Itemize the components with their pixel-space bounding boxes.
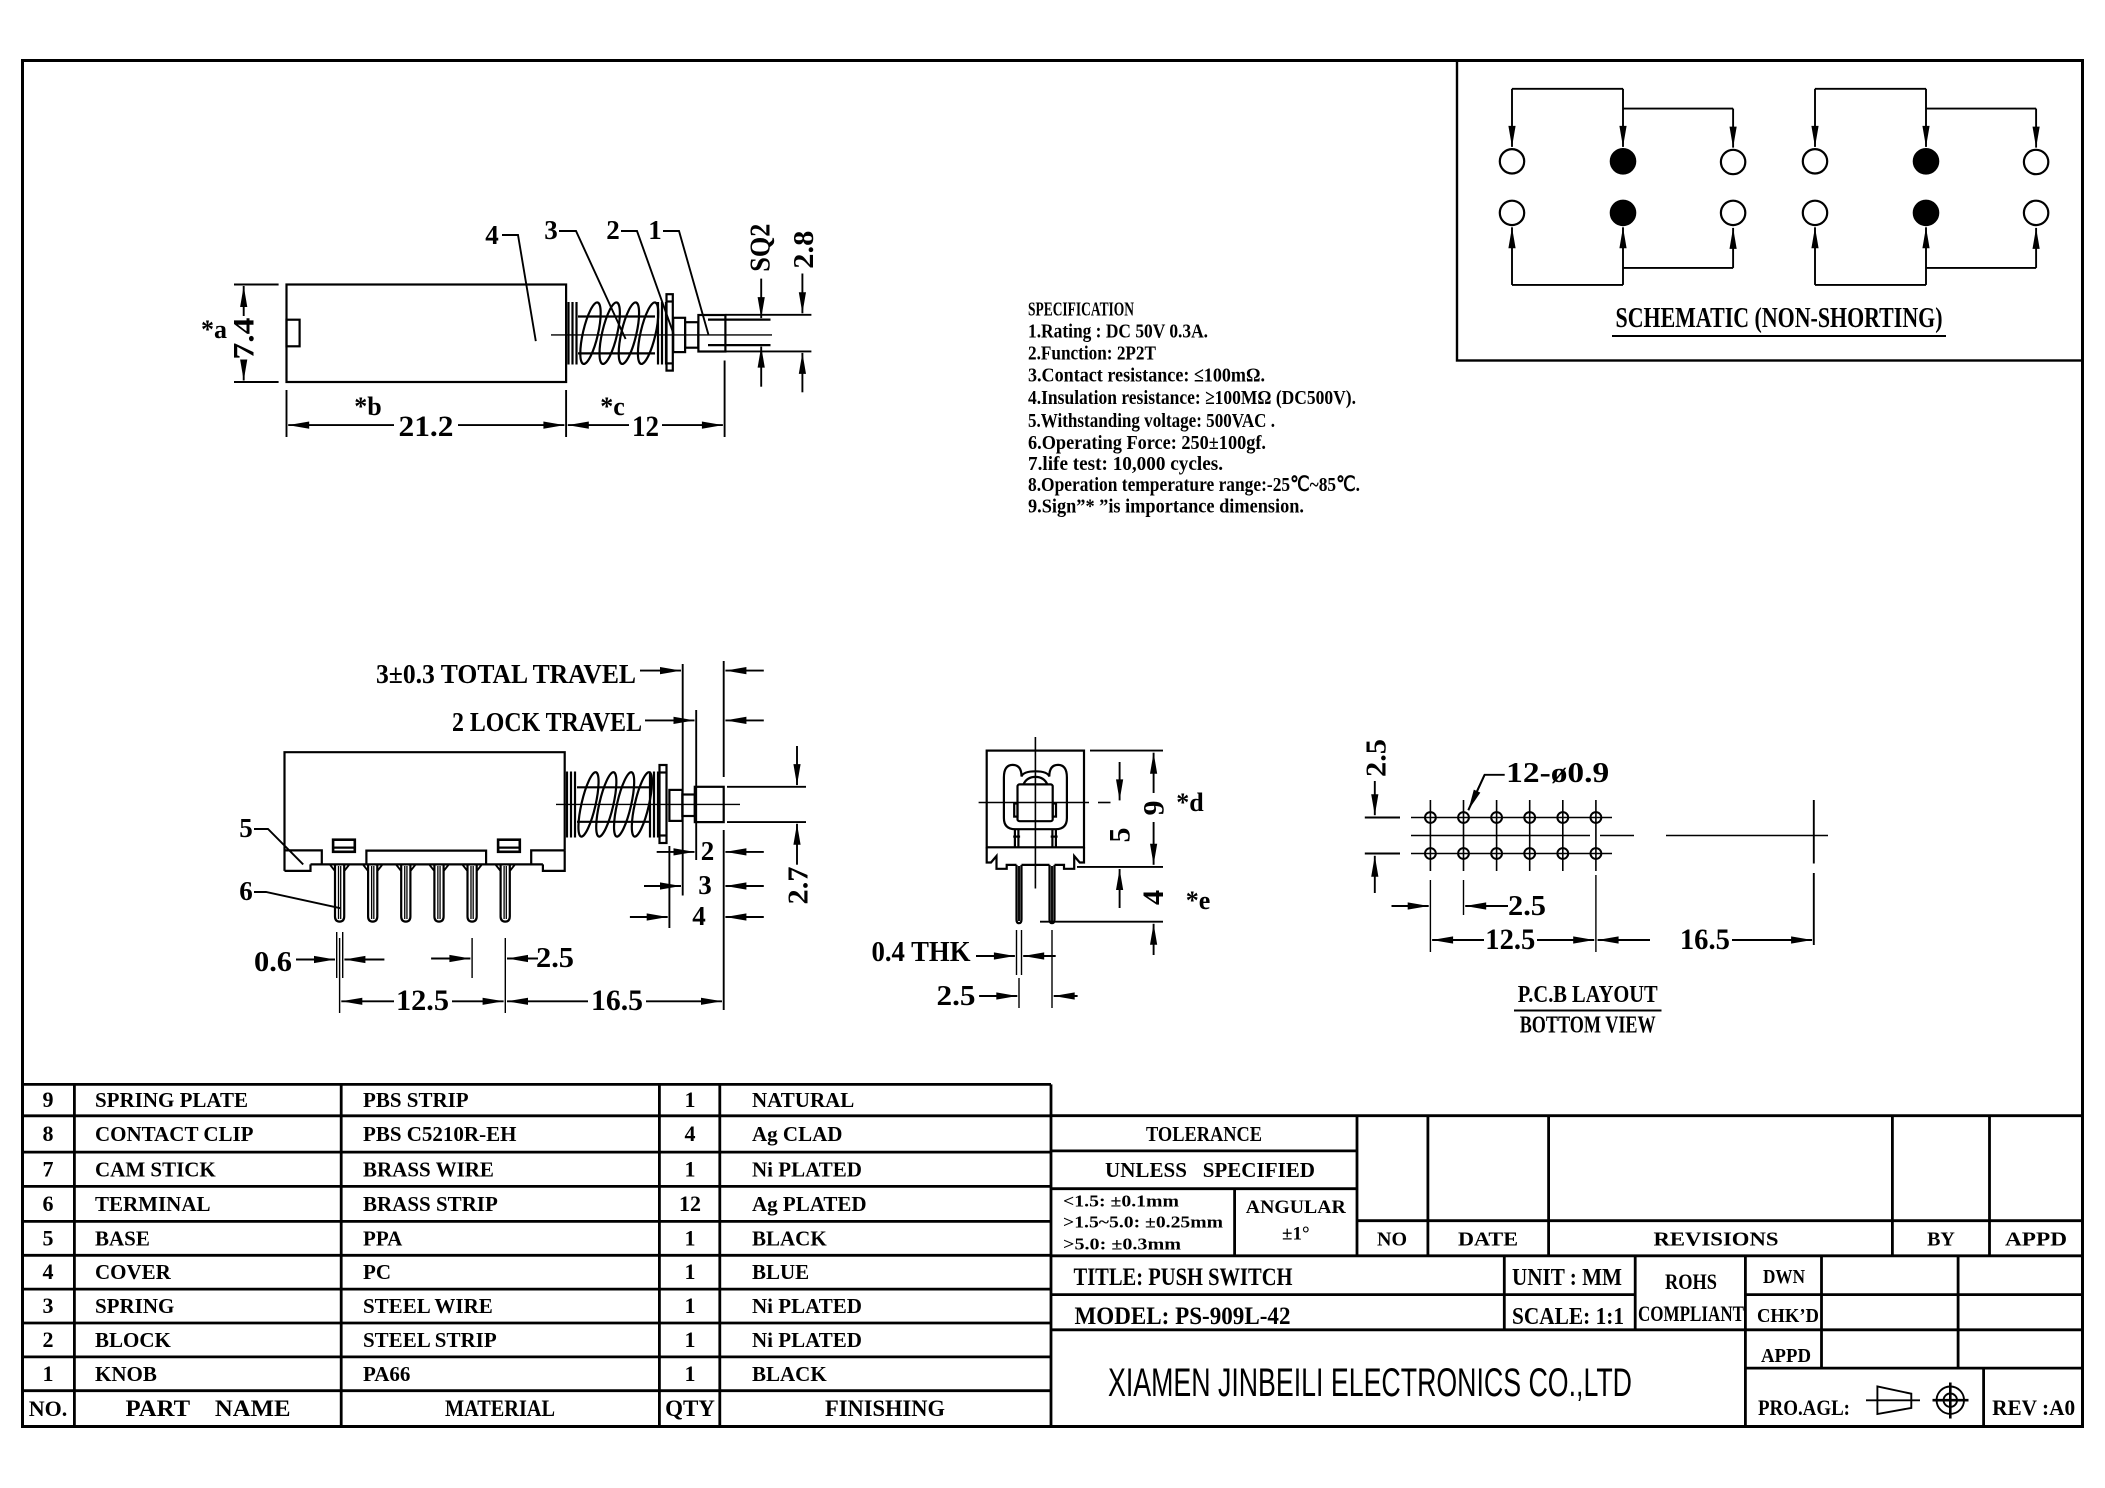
svg-text:STEEL WIRE: STEEL WIRE: [363, 1294, 493, 1318]
spring (view 2): [566, 772, 568, 838]
svg-text:2: 2: [43, 1327, 54, 1352]
plunger rod through spring (view 1): [578, 315, 655, 317]
svg-text:1.Rating : DC 50V 0.3A.: 1.Rating : DC 50V 0.3A.: [1028, 321, 1208, 343]
svg-text:7.life test: 10,000 cycles.: 7.life test: 10,000 cycles.: [1028, 453, 1223, 475]
svg-text:BRASS WIRE: BRASS WIRE: [363, 1157, 494, 1181]
svg-text:ROHS: ROHS: [1665, 1269, 1717, 1294]
projection angle trapezoid symbol: [1877, 1386, 1911, 1414]
svg-text:UNLESS SPECIFIED: UNLESS SPECIFIED: [1105, 1158, 1315, 1182]
svg-text:TITLE: PUSH SWITCH: TITLE: PUSH SWITCH: [1074, 1264, 1293, 1291]
right foot: [543, 850, 565, 871]
horizontal center line: [979, 802, 1089, 804]
svg-text:4: 4: [43, 1259, 54, 1284]
svg-text:PBS C5210R-EH: PBS C5210R-EH: [363, 1122, 516, 1146]
terminals (item 6): 6 pins: [335, 864, 344, 921]
svg-text:2 LOCK TRAVEL: 2 LOCK TRAVEL: [452, 707, 642, 737]
latch window left: [333, 840, 355, 852]
dimension 7.4 (*a): [234, 284, 279, 286]
svg-text:4: 4: [692, 901, 706, 931]
svg-text:P.C.B LAYOUT: P.C.B LAYOUT: [1518, 982, 1658, 1008]
svg-text:FINISHING: FINISHING: [825, 1396, 945, 1421]
svg-text:6: 6: [239, 876, 253, 906]
svg-text:2.5: 2.5: [1361, 739, 1392, 777]
pole 1 wire top middle: [1622, 89, 1624, 147]
pcb center line: [1411, 835, 1590, 837]
svg-text:7: 7: [43, 1156, 54, 1181]
svg-text:1: 1: [685, 1259, 696, 1284]
svg-text:2: 2: [606, 215, 620, 245]
svg-text:MATERIAL: MATERIAL: [445, 1396, 555, 1421]
dim 2.5 (front pins): [1018, 978, 1020, 1008]
shaft (view 2): [682, 795, 694, 817]
svg-text:5: 5: [43, 1225, 54, 1250]
pole 1 wire bottom inner: [1623, 267, 1733, 269]
svg-text:*d: *d: [1176, 788, 1204, 817]
travel dimension lines: [682, 664, 684, 896]
left foot: [285, 864, 311, 871]
pole 2 terminal contacts: [1803, 149, 1827, 173]
svg-text:TERMINAL: TERMINAL: [95, 1192, 211, 1216]
knob edge extension lines: [727, 786, 806, 788]
dim 0.4 THK: [1016, 930, 1018, 975]
guide channels: [1014, 829, 1016, 847]
svg-text:COMPLIANT: COMPLIANT: [1638, 1301, 1744, 1326]
center line (view 1): [551, 334, 772, 336]
svg-text:Ni PLATED: Ni PLATED: [752, 1157, 862, 1181]
dim 12.5: [339, 938, 341, 1013]
base front profile: [987, 847, 1017, 869]
pcb hole grid: [1429, 800, 1431, 871]
SQ2 square section lines: [708, 319, 771, 321]
svg-text:12: 12: [679, 1191, 701, 1216]
ledge right: [531, 850, 565, 864]
svg-text:DATE: DATE: [1458, 1229, 1518, 1251]
center line (view 2): [556, 803, 740, 805]
svg-text:0.4 THK: 0.4 THK: [872, 937, 971, 968]
svg-text:*b: *b: [354, 392, 381, 421]
svg-text:21.2: 21.2: [399, 410, 454, 443]
svg-text:PBS STRIP: PBS STRIP: [363, 1088, 469, 1112]
svg-text:8.Operation temperature range:: 8.Operation temperature range:-25℃~85℃.: [1028, 474, 1360, 496]
svg-text:<1.5: ±0.1mm: <1.5: ±0.1mm: [1063, 1192, 1179, 1211]
svg-text:2.5: 2.5: [536, 943, 574, 974]
svg-text:ANGULAR: ANGULAR: [1246, 1197, 1346, 1218]
svg-text:NO: NO: [1377, 1229, 1407, 1251]
svg-text:2.5: 2.5: [937, 981, 976, 1012]
svg-text:1: 1: [685, 1156, 696, 1181]
left notch on cover: [287, 320, 300, 347]
svg-text:BRASS STRIP: BRASS STRIP: [363, 1192, 498, 1216]
dimension 2.8: [801, 274, 803, 314]
pcb right reference line: [1813, 800, 1815, 864]
svg-text:1: 1: [685, 1361, 696, 1386]
pole 1 wire top outer: [1512, 88, 1623, 90]
dim 2.5 (rows, left): [1365, 817, 1400, 819]
svg-text:2.Function: 2P2T: 2.Function: 2P2T: [1028, 343, 1156, 365]
svg-text:2: 2: [701, 836, 715, 866]
svg-text:QTY: QTY: [665, 1396, 715, 1421]
svg-text:Ni PLATED: Ni PLATED: [752, 1294, 862, 1318]
projection angle target symbol: [1937, 1387, 1964, 1414]
svg-text:>5.0: ±0.3mm: >5.0: ±0.3mm: [1063, 1235, 1181, 1254]
dim 4 (*e): [1153, 924, 1155, 955]
knob (view 1, item 1): [698, 315, 725, 352]
spring plate wings: [1004, 765, 1067, 829]
svg-text:4.Insulation resistance: ≥100M: 4.Insulation resistance: ≥100MΩ (DC500V)…: [1028, 387, 1356, 409]
pole 2 wire top middle: [1925, 89, 1927, 147]
collar (view 1, item 2): [673, 318, 685, 352]
svg-text:Ag PLATED: Ag PLATED: [752, 1192, 867, 1216]
front pins: [1017, 865, 1022, 923]
pcb holes 12-Ø0.9: [1425, 812, 1436, 823]
pole 2 wire top outer: [1815, 88, 1926, 90]
svg-text:2.7: 2.7: [784, 867, 815, 905]
base/cover body (view 2): [285, 752, 565, 871]
svg-text:12: 12: [632, 410, 659, 443]
svg-text:REVISIONS: REVISIONS: [1654, 1229, 1779, 1251]
svg-text:3: 3: [698, 870, 712, 900]
svg-text:UNIT : MM: UNIT : MM: [1512, 1265, 1622, 1291]
dimension 21.2 (*b): [286, 390, 288, 437]
svg-text:COVER: COVER: [95, 1260, 172, 1284]
svg-text:BLUE: BLUE: [752, 1260, 809, 1284]
dimension 12 (*c): [724, 361, 726, 438]
svg-text:9: 9: [43, 1087, 54, 1112]
svg-text:BLOCK: BLOCK: [95, 1328, 172, 1352]
dim 9 (*d): [1153, 753, 1155, 793]
shaft (view 1): [685, 322, 698, 348]
dim 0.6: [336, 932, 338, 978]
parts table grid: [22, 1083, 1051, 1086]
svg-text:6.Operating Force: 250±100gf.: 6.Operating Force: 250±100gf.: [1028, 432, 1266, 454]
svg-text:12-ø0.9: 12-ø0.9: [1506, 758, 1609, 789]
svg-text:3±0.3 TOTAL TRAVEL: 3±0.3 TOTAL TRAVEL: [376, 659, 636, 689]
svg-text:2.8: 2.8: [789, 231, 820, 269]
ledge left: [285, 850, 322, 864]
dim 2.7: [796, 746, 798, 785]
pole 2 wire bottom inner: [1926, 267, 2036, 269]
base line with pins: [311, 863, 543, 865]
pole 1 wire top inner: [1623, 108, 1733, 110]
svg-text:CAM STICK: CAM STICK: [95, 1157, 216, 1181]
wing inner dome band: [1024, 777, 1048, 784]
svg-text:*c: *c: [600, 392, 625, 421]
dim 2.5 (pins): [471, 938, 473, 978]
svg-text:SPRING PLATE: SPRING PLATE: [95, 1088, 248, 1112]
svg-text:BOTTOM VIEW: BOTTOM VIEW: [1520, 1013, 1656, 1039]
extension lines right (front view): [1090, 750, 1163, 752]
latch window right: [498, 840, 520, 852]
svg-text:BLACK: BLACK: [752, 1362, 827, 1386]
svg-text:BASE: BASE: [95, 1226, 150, 1250]
dimension SQ2: [760, 279, 762, 319]
svg-text:*a: *a: [201, 315, 227, 344]
svg-text:2.5: 2.5: [1508, 891, 1546, 922]
svg-text:4: 4: [1137, 890, 1170, 905]
2.8 extension lines: [725, 314, 811, 316]
dim 2.5 (pitch, bottom): [1429, 880, 1431, 952]
svg-text:PRO.AGL:: PRO.AGL:: [1758, 1395, 1850, 1420]
cover front (view 3): [987, 751, 1084, 848]
svg-text:CONTACT CLIP: CONTACT CLIP: [95, 1122, 254, 1146]
svg-text:>1.5~5.0: ±0.25mm: >1.5~5.0: ±0.25mm: [1063, 1213, 1223, 1232]
dim 16.5 (pcb): [1598, 939, 1650, 941]
spring plate washer (view 1): [667, 294, 673, 370]
svg-text:APPD: APPD: [1761, 1345, 1811, 1367]
svg-text:PC: PC: [363, 1260, 391, 1284]
svg-text:1: 1: [685, 1327, 696, 1352]
knob front square: [1018, 784, 1053, 821]
svg-text:BLACK: BLACK: [752, 1226, 827, 1250]
svg-text:BY: BY: [1927, 1229, 1955, 1251]
svg-text:NATURAL: NATURAL: [752, 1088, 854, 1112]
svg-text:SPRING: SPRING: [95, 1294, 174, 1318]
svg-text:1: 1: [648, 215, 662, 245]
svg-text:SQ2: SQ2: [746, 224, 777, 272]
svg-text:SCHEMATIC (NON-SHORTING): SCHEMATIC (NON-SHORTING): [1616, 303, 1943, 334]
collar (view 2): [669, 790, 682, 821]
svg-text:CHK’D: CHK’D: [1757, 1305, 1819, 1327]
pole 1 terminal contacts: [1500, 149, 1524, 173]
pole 2 wire bottom outer: [1815, 284, 1926, 286]
svg-text:1: 1: [685, 1087, 696, 1112]
svg-text:16.5: 16.5: [1680, 923, 1730, 956]
svg-text:8: 8: [43, 1121, 54, 1146]
title block grid: [1051, 1114, 2083, 1117]
svg-text:*e: *e: [1186, 886, 1211, 915]
svg-text:NO.: NO.: [29, 1396, 68, 1421]
svg-text:XIAMEN JINBEILI ELECTRONICS CO: XIAMEN JINBEILI ELECTRONICS CO.,LTD: [1108, 1361, 1632, 1405]
svg-text:PPA: PPA: [363, 1226, 403, 1250]
svg-text:1: 1: [685, 1225, 696, 1250]
svg-text:3: 3: [544, 215, 558, 245]
svg-text:4: 4: [685, 1121, 696, 1146]
svg-text:1: 1: [685, 1293, 696, 1318]
svg-text:0.6: 0.6: [254, 947, 292, 978]
knob (view 2): [695, 787, 724, 822]
svg-text:3.Contact resistance: ≤100mΩ.: 3.Contact resistance: ≤100mΩ.: [1028, 365, 1265, 387]
svg-text:12.5: 12.5: [396, 984, 449, 1017]
pole 2 wire top inner: [1926, 108, 2036, 110]
svg-text:Ag CLAD: Ag CLAD: [752, 1122, 842, 1146]
spring plate washer (view 2): [660, 765, 667, 843]
svg-text:6: 6: [43, 1191, 54, 1216]
dim 5: [1119, 762, 1121, 800]
schematic box: [1457, 61, 2083, 361]
svg-text:SCALE: 1:1: SCALE: 1:1: [1512, 1304, 1624, 1330]
svg-text:4: 4: [485, 220, 499, 250]
svg-text:Ni PLATED: Ni PLATED: [752, 1328, 862, 1352]
svg-text:3: 3: [43, 1293, 54, 1318]
knob side tabs: [1014, 804, 1017, 817]
center block: [366, 851, 486, 865]
vertical center line: [1034, 737, 1036, 889]
cover body (view 1, item 4): [287, 285, 567, 383]
spring (view 1, item 3): [567, 302, 569, 365]
svg-text:1: 1: [43, 1361, 54, 1386]
svg-text:16.5: 16.5: [591, 984, 643, 1017]
svg-text:7.4: 7.4: [228, 318, 261, 360]
svg-text:±1°: ±1°: [1282, 1224, 1310, 1245]
svg-text:APPD: APPD: [2005, 1229, 2067, 1251]
svg-text:KNOB: KNOB: [95, 1362, 157, 1386]
svg-text:PART NAME: PART NAME: [126, 1396, 291, 1421]
svg-text:9.Sign”* ”is importance dimens: 9.Sign”* ”is importance dimension.: [1028, 496, 1304, 518]
svg-text:5: 5: [239, 813, 253, 843]
svg-text:PA66: PA66: [363, 1362, 410, 1386]
svg-text:DWN: DWN: [1763, 1266, 1805, 1288]
svg-text:SPECIFICATION: SPECIFICATION: [1028, 298, 1134, 320]
pole 1 wire bottom outer: [1512, 284, 1623, 286]
svg-text:REV :A0: REV :A0: [1992, 1395, 2075, 1420]
svg-text:5: 5: [1104, 828, 1137, 843]
svg-text:9: 9: [1138, 801, 1171, 816]
dim 12.5 (pcb): [1595, 875, 1597, 952]
svg-text:12.5: 12.5: [1485, 923, 1535, 956]
svg-text:MODEL: PS-909L-42: MODEL: PS-909L-42: [1075, 1303, 1291, 1330]
svg-text:5.Withstanding voltage: 500VAC: 5.Withstanding voltage: 500VAC .: [1028, 410, 1275, 432]
svg-text:STEEL STRIP: STEEL STRIP: [363, 1328, 497, 1352]
plunger rod through spring (view 2): [577, 786, 651, 788]
svg-text:TOLERANCE: TOLERANCE: [1146, 1122, 1262, 1146]
